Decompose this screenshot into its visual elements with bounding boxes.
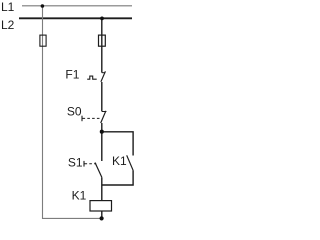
svg-text:S0: S0	[67, 104, 82, 118]
svg-text:K1: K1	[72, 188, 87, 202]
svg-text:K1: K1	[112, 154, 127, 168]
svg-text:F1: F1	[65, 67, 79, 81]
svg-text:L1: L1	[1, 0, 15, 14]
svg-text:L2: L2	[1, 18, 15, 32]
svg-text:S1: S1	[68, 155, 83, 169]
